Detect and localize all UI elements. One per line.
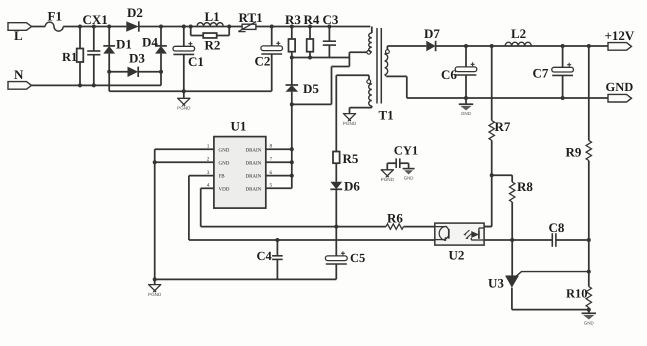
svg-text:+12V: +12V: [605, 28, 635, 43]
svg-text:R6: R6: [387, 211, 403, 226]
svg-text:VDD: VDD: [219, 186, 230, 192]
svg-text:C1: C1: [188, 54, 204, 69]
svg-text:R4: R4: [304, 12, 320, 27]
svg-text:C4: C4: [257, 249, 273, 263]
svg-text:R7: R7: [495, 119, 511, 134]
svg-text:D5: D5: [303, 81, 319, 96]
svg-text:C8: C8: [549, 220, 565, 235]
svg-text:N: N: [14, 67, 24, 82]
svg-text:T1: T1: [379, 108, 394, 123]
svg-text:L: L: [14, 28, 23, 43]
svg-text:DRAIN: DRAIN: [245, 174, 261, 180]
svg-text:GND: GND: [219, 160, 230, 166]
svg-text:D6: D6: [344, 179, 360, 194]
svg-text:DRAIN: DRAIN: [245, 147, 261, 153]
svg-text:GND: GND: [606, 80, 634, 94]
svg-text:GND: GND: [404, 176, 414, 181]
svg-text:GND: GND: [584, 320, 594, 325]
svg-text:R9: R9: [566, 145, 582, 160]
svg-text:C7: C7: [533, 66, 549, 81]
svg-text:L1: L1: [205, 9, 220, 24]
svg-text:PGND: PGND: [343, 121, 357, 126]
svg-text:FB: FB: [219, 174, 226, 180]
svg-text:C3: C3: [323, 12, 339, 27]
svg-text:GND: GND: [219, 147, 230, 153]
svg-text:PGND: PGND: [381, 177, 395, 182]
svg-text:RT1: RT1: [239, 10, 263, 25]
svg-text:D1: D1: [116, 36, 132, 51]
svg-text:PGND: PGND: [148, 292, 162, 297]
svg-text:D4: D4: [142, 34, 158, 49]
svg-text:R3: R3: [285, 12, 301, 27]
svg-text:8: 8: [270, 144, 273, 150]
svg-text:U3: U3: [488, 275, 504, 290]
svg-text:F1: F1: [48, 9, 62, 24]
svg-text:C5: C5: [350, 251, 365, 265]
svg-text:CY1: CY1: [394, 144, 418, 158]
svg-text:C6: C6: [441, 67, 457, 82]
svg-text:PGND: PGND: [177, 106, 191, 111]
svg-text:C2: C2: [255, 54, 271, 69]
svg-text:U2: U2: [449, 248, 465, 263]
svg-text:7: 7: [270, 157, 273, 163]
svg-text:CX1: CX1: [83, 12, 108, 27]
svg-text:D3: D3: [129, 51, 145, 66]
svg-text:R2: R2: [205, 38, 221, 53]
svg-text:L2: L2: [511, 26, 526, 41]
svg-text:D7: D7: [424, 26, 440, 41]
svg-text:GND: GND: [461, 111, 471, 116]
svg-text:5: 5: [270, 183, 273, 189]
svg-text:DRAIN: DRAIN: [245, 186, 261, 192]
svg-text:R1: R1: [62, 50, 77, 64]
svg-text:DRAIN: DRAIN: [245, 160, 261, 166]
svg-text:R8: R8: [517, 179, 533, 194]
svg-text:R10: R10: [566, 286, 588, 300]
svg-text:6: 6: [270, 170, 273, 176]
svg-text:U1: U1: [231, 119, 247, 134]
svg-text:R5: R5: [343, 151, 359, 166]
svg-text:D2: D2: [127, 5, 143, 20]
